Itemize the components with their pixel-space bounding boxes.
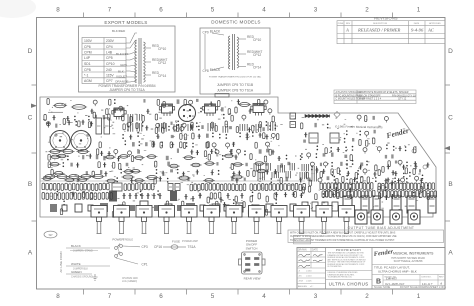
capacitor C65 <box>216 162 218 165</box>
resistor R232 <box>380 191 383 198</box>
resistor R145 <box>99 183 102 190</box>
diode D6 <box>323 115 326 118</box>
svg-text:±.005: ±.005 <box>306 281 312 283</box>
capacitor C156 <box>101 209 104 214</box>
transformer core (domestic) <box>232 34 234 70</box>
resistor R214 <box>425 183 428 190</box>
capacitor C166 <box>130 205 135 211</box>
mounting hole H3 <box>334 112 340 118</box>
resistor R294 <box>67 175 80 179</box>
pad pair P87 <box>233 199 235 204</box>
resistor R5 <box>93 112 95 118</box>
transistor Q34 <box>363 169 367 175</box>
resistor R259 <box>86 193 89 200</box>
resistor R32 <box>155 114 157 120</box>
resistor R163 <box>217 184 220 191</box>
capacitor C11 <box>210 102 213 107</box>
tolerance rows text <box>298 271 313 289</box>
potentiometer VR2 <box>114 206 130 234</box>
capacitor C42 <box>108 151 111 156</box>
pad pair P27 <box>139 141 141 146</box>
svg-text:CP12: CP12 <box>158 61 166 65</box>
resistor R9 <box>176 125 178 131</box>
wire white <box>66 265 110 267</box>
resistor R73 <box>119 163 121 169</box>
capacitor C64 <box>167 162 170 166</box>
middle divider line <box>326 270 373 272</box>
resistor R152 <box>140 184 143 191</box>
pad pair P44 <box>346 130 348 135</box>
resistor R282 <box>216 201 218 207</box>
resistor R157 <box>194 184 197 191</box>
resistor R173 <box>258 184 261 191</box>
pad pair P37 <box>156 169 158 174</box>
resistor R245 <box>427 191 430 198</box>
potentiometer VR11 <box>316 206 332 234</box>
capacitor bank CB12 <box>137 123 142 131</box>
svg-text:8: 8 <box>56 293 60 300</box>
capacitor C95 <box>352 138 354 142</box>
resistor R248 <box>42 193 45 200</box>
resistor R107 <box>337 168 339 174</box>
jack J2 <box>371 210 383 224</box>
resistor R253 <box>62 193 65 200</box>
switch SW1 rear view <box>239 252 266 274</box>
POWER ON/OFF SWITCH label <box>246 239 258 250</box>
svg-text:CHASSIS GND: CHASSIS GND <box>122 277 138 280</box>
capacitor C179 <box>290 204 296 211</box>
capacitor C105 <box>360 163 363 166</box>
resistor R10 <box>252 125 254 131</box>
resistor R229 <box>365 191 368 198</box>
resistor R4 <box>44 114 46 120</box>
divider above size row <box>372 274 445 276</box>
resistor R138 <box>72 183 75 190</box>
svg-text:VIOLET: VIOLET <box>116 75 127 79</box>
capacitor C79 <box>238 171 241 176</box>
pad pair P31 <box>67 155 69 160</box>
capacitor bank CB17 <box>302 164 309 171</box>
resistor R88 <box>256 169 268 173</box>
title block outer <box>297 248 445 290</box>
capacitor C33 <box>206 134 209 138</box>
resistor R137 <box>69 184 72 191</box>
svg-text:C: C <box>28 115 33 122</box>
export models box <box>79 26 176 92</box>
resistor R24 <box>258 99 260 105</box>
svg-text:WITH CHASSIS INLET ON, PIT OVE: WITH CHASSIS INLET ON, PIT OVER A NEW 6L… <box>290 232 396 235</box>
capacitor C28 <box>262 127 264 131</box>
pad pair P28 <box>186 142 188 147</box>
capacitor C63 <box>126 163 129 166</box>
resistor R154 <box>148 183 151 190</box>
svg-text:TS1A: TS1A <box>188 245 197 249</box>
resistor R30 <box>130 116 132 122</box>
capacitor C181 <box>312 202 318 211</box>
pad pair P61 <box>357 170 359 175</box>
svg-text:9-4-96: 9-4-96 <box>411 28 424 33</box>
resistor R288 <box>206 211 208 217</box>
capacitor C58 <box>234 155 237 160</box>
resistor R149 <box>128 184 131 191</box>
capacitor C119 <box>387 164 390 169</box>
resistor R271 <box>266 196 268 202</box>
capacitor C157 <box>144 212 147 217</box>
resistor R279 <box>123 202 125 208</box>
resistor R197 <box>360 183 363 190</box>
resistor R97 <box>365 116 367 122</box>
resistor R45 <box>236 127 238 133</box>
svg-text:240: 240 <box>106 68 112 72</box>
resistor R300 <box>230 175 243 179</box>
svg-text:SP: SP <box>48 233 52 237</box>
transistor Q28 <box>363 148 367 154</box>
resistor R205 <box>392 183 395 190</box>
pad pair P77 <box>427 185 429 190</box>
pad pair P70 <box>339 170 341 175</box>
resistor R235 <box>391 191 394 198</box>
connector CP2 above edge <box>215 94 229 98</box>
resistor R158 <box>198 184 201 191</box>
resistor R167 <box>232 184 235 191</box>
resistor R100 <box>366 140 368 146</box>
resistor R44 <box>215 125 217 131</box>
title block vertical dividers <box>325 248 327 290</box>
resistor R148 <box>124 184 127 191</box>
resistor R193 <box>345 183 348 190</box>
resistor R38 <box>163 123 165 129</box>
capacitor bank CB8 <box>268 122 275 131</box>
resistor R162 <box>213 184 216 191</box>
pad pair P35 <box>63 162 65 167</box>
pad pair P80 <box>413 192 415 197</box>
resistor R203 <box>385 183 388 190</box>
resistor R240 <box>409 191 412 198</box>
capacitor C70 <box>86 171 88 175</box>
capacitor C90 <box>373 116 375 120</box>
svg-text:SNAP RIVET 1 2 3 4: SNAP RIVET 1 2 3 4 <box>359 98 382 101</box>
resistor R218 <box>326 191 329 198</box>
capacitor C148 <box>240 193 243 199</box>
capacitor C46 <box>196 150 199 155</box>
capacitor C54 <box>96 155 99 159</box>
diode D3 <box>312 115 315 118</box>
resistor R35 <box>88 122 90 128</box>
IC U5 <box>309 133 318 143</box>
svg-text:CP10: CP10 <box>106 62 115 66</box>
capacitor C88 <box>244 178 246 181</box>
resistor R153 <box>144 183 147 190</box>
resistor R264 <box>106 193 109 200</box>
svg-text:QTY 12: QTY 12 <box>398 98 407 101</box>
pad pair P17 <box>168 126 170 131</box>
output tube socket V2 <box>361 196 369 213</box>
svg-text:A: A <box>448 250 453 257</box>
svg-text:B: B <box>28 181 32 188</box>
capacitor C99 <box>331 153 334 157</box>
resistor R42 <box>259 122 261 128</box>
resistor R165 <box>224 184 227 191</box>
resistor R50 <box>160 142 162 148</box>
capacitor bank CB10 <box>137 114 142 121</box>
capacitor C45 <box>190 150 193 155</box>
resistor R83 <box>92 171 94 177</box>
resistor R80 <box>254 162 266 166</box>
transistor Q2 <box>202 104 217 116</box>
svg-text:BLK/YEL: BLK/YEL <box>116 52 129 56</box>
capacitor bank CB23 <box>312 173 316 182</box>
IC U4 <box>290 122 296 128</box>
capacitor C43 <box>137 150 140 154</box>
resistor R26 <box>228 109 230 115</box>
resistor R144 <box>95 184 98 191</box>
resistor R150 <box>132 184 135 191</box>
resistor R46 <box>184 134 186 140</box>
capacitor bank CB1 <box>159 123 166 132</box>
capacitor C153 <box>275 192 278 197</box>
capacitor C144 <box>191 196 194 202</box>
capacitor C130 <box>349 188 352 193</box>
jack J3 <box>390 210 402 224</box>
pad pair P1 <box>198 126 200 131</box>
parts chart text <box>336 91 417 101</box>
resistor R56 <box>48 154 50 160</box>
pad pair P30 <box>244 150 246 155</box>
pad pair P25 <box>252 132 254 137</box>
pad pair P76 <box>385 186 387 191</box>
resistor R75 <box>168 164 180 168</box>
resistor R91 <box>77 178 89 182</box>
resistor R131 <box>46 183 49 190</box>
resistor R221 <box>336 190 339 197</box>
pad pair P64 <box>375 177 377 182</box>
svg-text:±1°: ±1° <box>310 286 313 288</box>
resistor R110 <box>413 169 415 175</box>
bias notes box <box>288 230 444 243</box>
diode D7 <box>327 115 330 118</box>
resistor R210 <box>410 183 413 190</box>
resistor R129 <box>427 194 429 200</box>
pad pair P51 <box>386 144 388 149</box>
transistor Q30 <box>307 153 311 159</box>
capacitor C48 <box>229 149 232 154</box>
resistor R8 <box>162 127 164 133</box>
resistor R260 <box>90 193 93 200</box>
capacitor C67 <box>265 163 267 166</box>
capacitor C126 <box>391 180 394 185</box>
resistor R23 <box>218 101 220 107</box>
resistor R254 <box>66 193 69 200</box>
resistor R61 <box>131 156 133 162</box>
pad pair P52 <box>393 146 395 151</box>
transistor Q27 <box>365 131 369 137</box>
capacitor C87 <box>235 178 238 183</box>
resistor R146 <box>103 183 106 190</box>
capacitor C76 <box>196 170 199 175</box>
capacitor C31 <box>171 135 174 138</box>
resistor R13 <box>277 134 279 140</box>
capacitor C78 <box>232 171 235 176</box>
capacitor C134 <box>109 191 117 202</box>
potentiometer VR8 <box>249 206 265 234</box>
pad pair P57 <box>346 160 348 165</box>
pad pair P15 <box>266 121 268 126</box>
resistor R201 <box>378 183 381 190</box>
capacitor C89 <box>286 177 289 182</box>
resistor R159 <box>201 183 204 190</box>
resistor R182 <box>291 184 294 191</box>
resistor R19 <box>109 99 111 105</box>
capacitor C9 <box>177 99 180 104</box>
resistor R53 <box>255 142 257 148</box>
resistor R25 <box>106 109 108 115</box>
resistor R161 <box>209 184 212 191</box>
capacitor C8 <box>143 99 145 103</box>
pad pair P58 <box>352 160 354 165</box>
capacitor C27 <box>248 127 251 132</box>
svg-text:CP10: CP10 <box>253 38 261 42</box>
pad pair P68 <box>346 164 348 169</box>
resistor R188 <box>327 183 330 190</box>
capacitor C162 <box>75 204 82 212</box>
voltage table text <box>84 39 115 83</box>
resistor R40 <box>211 122 213 128</box>
transistor Q23 <box>215 150 219 156</box>
capacitor bank CB21 <box>286 171 290 178</box>
transistor Q33 <box>398 160 402 166</box>
transistor Q32 <box>324 162 328 168</box>
svg-text:WHITE: WHITE <box>71 262 81 266</box>
potentiometer VR9 <box>271 206 287 234</box>
resistor R65 <box>208 154 210 160</box>
pad pair P23 <box>226 134 228 139</box>
pad pair P65 <box>394 177 396 182</box>
capacitor C146 <box>219 197 222 203</box>
capacitor C118 <box>359 165 362 170</box>
capacitor bank CB6 <box>240 124 247 131</box>
diode D4 <box>316 115 319 118</box>
capacitor C108 <box>426 163 429 168</box>
potentiometer VR7 <box>226 206 242 234</box>
svg-text:AC: AC <box>427 28 435 33</box>
capacitor bank CB11 <box>128 123 133 132</box>
pad pair P22 <box>219 134 221 139</box>
capacitor C183 <box>332 202 338 211</box>
resistor R84 <box>123 170 135 174</box>
capacitor bank CB18 <box>312 166 316 174</box>
power switch SW1 <box>115 244 123 258</box>
capacitor C178 <box>278 205 283 211</box>
capacitor bank CB22 <box>300 172 307 179</box>
svg-text:3: 3 <box>314 7 318 14</box>
fuse F1 <box>163 245 186 249</box>
pad pair P43 <box>327 124 329 129</box>
svg-text:POWER: POWER <box>112 238 124 242</box>
resistor R102 <box>325 148 327 154</box>
resistor R120 <box>336 178 338 184</box>
resistor R86 <box>247 170 249 176</box>
capacitor C150 <box>332 192 335 197</box>
resistor R267 <box>214 193 216 199</box>
svg-text:.XX: .XX <box>298 276 302 278</box>
svg-text:6: 6 <box>159 7 163 14</box>
svg-text:DATE: DATE <box>312 249 318 252</box>
resistor R230 <box>369 191 372 198</box>
resistor R117 <box>320 172 322 178</box>
resistor R180 <box>284 184 287 191</box>
resistor R72 <box>113 162 115 168</box>
pad pair P53 <box>405 146 407 151</box>
resistor R81 <box>51 169 53 175</box>
svg-text:RELEASED / PRIMER: RELEASED / PRIMER <box>357 28 401 33</box>
resistor R43 <box>155 128 157 134</box>
transistor Q36 <box>401 178 405 184</box>
pad pair P72 <box>409 172 411 177</box>
resistor R225 <box>351 191 354 198</box>
resistor R94 <box>154 178 156 184</box>
transistor Q18 <box>212 143 216 149</box>
capacitor C167 <box>140 201 148 213</box>
svg-text:CHASSIS GROUND: CHASSIS GROUND <box>71 276 93 279</box>
wire green <box>66 273 92 275</box>
arrow marker right frame <box>444 146 450 150</box>
resistor R112 <box>361 176 363 182</box>
capacitor C6 <box>246 135 249 140</box>
pad pair P8 <box>74 116 76 121</box>
pad pair P26 <box>125 140 127 145</box>
svg-text:ULTRA CHORUS: ULTRA CHORUS <box>329 282 369 287</box>
capacitor bank CB3 <box>188 124 193 131</box>
resistor R276 <box>210 193 212 199</box>
capacitor C73 <box>162 171 165 176</box>
capacitor C117 <box>387 178 390 183</box>
pad pair P6 <box>114 99 116 104</box>
resistor R223 <box>344 190 347 197</box>
svg-text:4: 4 <box>262 7 266 14</box>
capacitor C161 <box>62 205 67 211</box>
pad pair P84 <box>157 190 159 195</box>
relay RY1 <box>179 105 196 122</box>
resistor R164 <box>220 184 223 191</box>
pad pair P40 <box>116 177 118 182</box>
resistor R113 <box>367 177 369 183</box>
pad pair P13 <box>177 121 179 126</box>
resistor R208 <box>403 183 406 190</box>
pad pair P78 <box>323 193 325 198</box>
svg-text:MUSICAL INSTRUMENTS: MUSICAL INSTRUMENTS <box>393 252 434 256</box>
unless otherwise specified <box>328 272 359 279</box>
resistor R236 <box>394 191 397 198</box>
resistor R220 <box>333 191 336 198</box>
resistor R66 <box>223 154 235 158</box>
resistor R57 <box>50 155 62 159</box>
model no row <box>385 276 445 278</box>
capacitor C20 <box>95 115 97 118</box>
resistor R15 <box>183 142 185 148</box>
svg-text:CP1: CP1 <box>142 263 148 267</box>
transistor Q5 <box>93 100 97 106</box>
resistor R239 <box>405 191 408 198</box>
resistor R128 <box>378 193 380 199</box>
scale sheet row <box>374 286 447 289</box>
resistor R139 <box>76 184 79 191</box>
pad pair P2 <box>275 124 277 129</box>
resistor R207 <box>400 183 403 190</box>
right divider <box>372 264 445 266</box>
svg-text:© 1995 Fender Musical Instrume: © 1995 Fender Musical Instruments <box>335 125 383 130</box>
pad pair P55 <box>316 153 318 158</box>
resistor R216 <box>432 183 435 190</box>
